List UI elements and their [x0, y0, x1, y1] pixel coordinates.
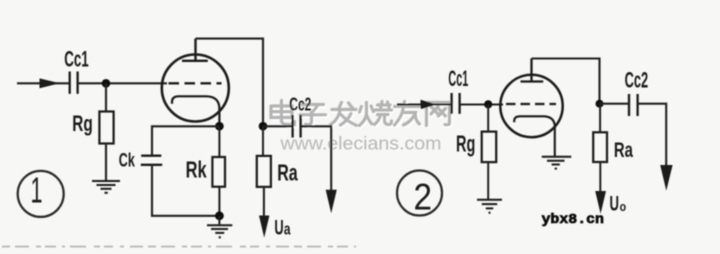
wire anode junction to Ra (circuit 1) — [262, 126, 264, 156]
wire anode top run to output node — [196, 39, 264, 122]
wire junction down to Rg — [105, 83, 107, 111]
capacitor Cc1 (circuit 2) — [452, 93, 460, 114]
node anode junction circuit 2 — [596, 100, 604, 108]
triode V2 envelope — [500, 75, 562, 137]
triode V1 cathode — [172, 96, 219, 126]
output arrow after Cc2 (circuit 1) — [326, 190, 337, 213]
ground below cathode network (circuit 1) — [207, 216, 232, 238]
svg-text:1: 1 — [31, 170, 43, 211]
svg-text:Ra: Ra — [614, 138, 634, 162]
ground below cathode (circuit 2) — [542, 157, 572, 169]
resistor Rk — [212, 126, 225, 216]
capacitor Cc2 (circuit 2) — [629, 94, 638, 116]
wire input circuit 1 — [17, 82, 70, 84]
capacitor Cc1 (circuit 1) — [70, 72, 78, 94]
label U0 — [610, 193, 627, 216]
svg-text:Cc2: Cc2 — [289, 94, 311, 115]
output arrow after Cc2 (circuit 2) — [660, 165, 672, 191]
wire cathode junction to Ck branch — [152, 126, 219, 155]
wire input circuit 2 — [397, 103, 452, 105]
node grid junction circuit 2 — [484, 100, 492, 108]
svg-text:2: 2 — [414, 176, 433, 217]
wire junction down to Rg (circuit 2) — [487, 104, 489, 131]
svg-text:Rg: Rg — [72, 111, 93, 136]
input signal arrow circuit 1 — [40, 78, 60, 88]
node anode junction circuit 1 — [259, 122, 268, 131]
input signal arrow circuit 2 — [421, 100, 437, 110]
svg-text:U: U — [274, 216, 283, 239]
triode V1 anode plate — [182, 39, 208, 61]
wire anode top run to output node (circuit 2) — [532, 59, 600, 101]
svg-text:Cc2: Cc2 — [625, 68, 649, 93]
wire Ck bottom branch — [152, 165, 219, 216]
wire Rg to ground (circuit 2) — [487, 162, 489, 199]
circled number 1 — [18, 170, 64, 217]
svg-text:Cc1: Cc1 — [64, 47, 89, 72]
svg-text:ybx8.cn: ybx8.cn — [542, 213, 605, 228]
circled number 2 — [397, 171, 442, 218]
capacitor Ck — [141, 156, 162, 165]
svg-text:Ck: Ck — [119, 151, 135, 172]
label Ua — [274, 216, 290, 239]
svg-text:Rk: Rk — [186, 157, 207, 183]
svg-text:www.elecians.com: www.elecians.com — [279, 133, 441, 154]
svg-text:a: a — [284, 219, 291, 238]
node cathode network bottom junction — [215, 211, 224, 220]
output arrow Ua (circuit 1) — [259, 216, 269, 238]
capacitor Cc2 (circuit 1) — [293, 115, 301, 138]
watermark chinese characters — [271, 101, 451, 128]
node grid junction circuit 1 — [102, 79, 111, 88]
triode V2 grid (dashed) — [506, 103, 556, 105]
node cathode junction circuit 1 — [215, 122, 224, 131]
resistor Rg (circuit 1) — [99, 112, 113, 144]
svg-text:U: U — [610, 193, 620, 216]
resistor Ra (circuit 1) — [257, 156, 271, 187]
svg-text:Rg: Rg — [456, 131, 475, 157]
triode V2 anode plate — [521, 59, 544, 82]
wire Ra to U0 arrow (circuit 2) — [599, 162, 601, 192]
output arrow U0 (circuit 2) — [595, 191, 606, 214]
wire anode junction to Ra (circuit 2) — [599, 104, 601, 133]
resistor Ra (circuit 2) — [593, 132, 607, 162]
wire anode junction to Cc2 (circuit 2) — [600, 103, 630, 105]
resistor Rg (circuit 2) — [482, 132, 497, 163]
wire Cc2 to output arrow (circuit 1) — [301, 126, 332, 190]
ground below Rg (circuit 2) — [477, 200, 502, 213]
wire Ra to Ua arrow — [263, 187, 265, 216]
svg-text:Ra: Ra — [277, 160, 298, 186]
svg-text:o: o — [620, 199, 627, 214]
triode V1 envelope — [162, 55, 229, 122]
ground below Rg (circuit 1) — [92, 181, 120, 193]
wire Rg to ground — [105, 143, 107, 181]
svg-text:Cc1: Cc1 — [448, 66, 468, 91]
wire Cc2 to output arrow (circuit 2) — [638, 104, 667, 166]
triode V1 grid (dashed) — [169, 82, 222, 84]
wire anode junction to Cc2 — [263, 125, 293, 127]
wire Cc1 to grid (circuit 2) — [460, 103, 503, 105]
wire Cc1 to grid — [78, 82, 167, 84]
triode V2 cathode — [514, 116, 555, 156]
